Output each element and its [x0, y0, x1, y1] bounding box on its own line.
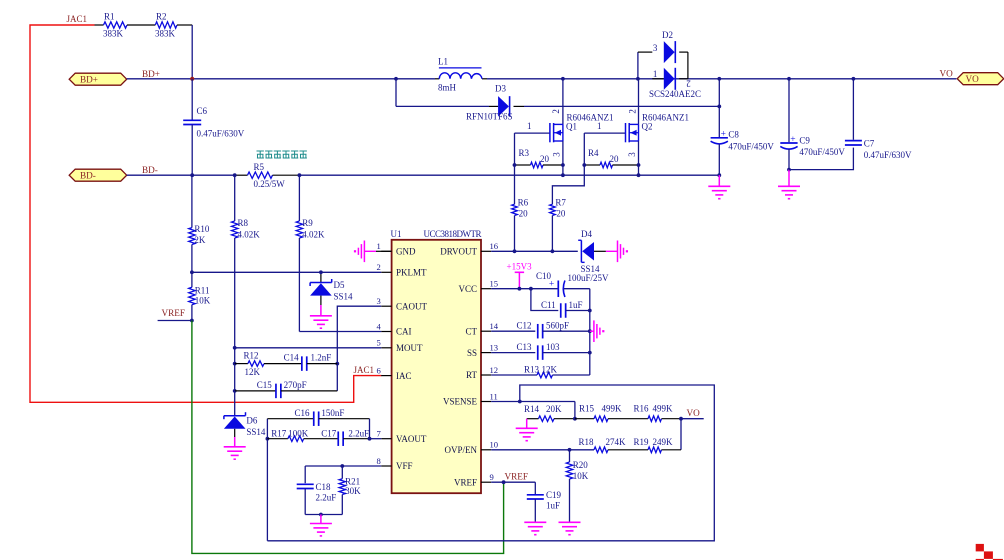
svg-text:8mH: 8mH [438, 83, 457, 93]
op-amp/controller U1 UCC3818DWTR [392, 240, 481, 493]
junction C15 left [233, 389, 237, 393]
svg-text:10: 10 [490, 440, 499, 450]
svg-text:2K: 2K [194, 235, 206, 245]
svg-text:D6: D6 [246, 416, 257, 426]
svg-text:2: 2 [551, 109, 561, 114]
svg-text:499K: 499K [653, 404, 674, 414]
capacitor C16 [267, 418, 313, 420]
wire CAOUT down to C15 [336, 364, 338, 391]
svg-text:D4: D4 [581, 229, 592, 239]
svg-text:CAOUT: CAOUT [396, 301, 428, 311]
svg-text:274K: 274K [606, 437, 627, 447]
svg-text:R20: R20 [573, 460, 589, 470]
capacitor C17 [337, 431, 339, 446]
svg-text:C17: C17 [321, 428, 337, 438]
svg-text:20: 20 [610, 154, 620, 164]
svg-text:R6: R6 [518, 198, 529, 208]
svg-text:1uF: 1uF [546, 501, 560, 511]
junction C8 top [717, 77, 721, 81]
svg-text:470uF/450V: 470uF/450V [728, 141, 774, 151]
junction C12 right [588, 329, 592, 333]
svg-text:VO: VO [940, 69, 954, 79]
svg-text:VAOUT: VAOUT [396, 434, 427, 444]
diode D3 [498, 96, 509, 117]
svg-text:Q2: Q2 [642, 121, 653, 131]
diode D4 (SS14) [582, 242, 594, 260]
ground below C8 (earth) [718, 175, 720, 186]
resistor R5 [235, 174, 248, 176]
resistor R1 [95, 24, 104, 26]
svg-text:16: 16 [490, 241, 499, 251]
svg-text:C18: C18 [316, 482, 332, 492]
svg-text:BD-: BD- [80, 171, 96, 181]
svg-text:U1: U1 [391, 229, 402, 239]
svg-text:BD+: BD+ [80, 75, 98, 85]
svg-text:2: 2 [628, 109, 638, 114]
svg-text:VO: VO [687, 408, 701, 418]
svg-text:R3: R3 [519, 148, 530, 158]
capacitor C14 [301, 356, 303, 371]
svg-text:R7: R7 [555, 198, 566, 208]
junction R20/OVP [568, 448, 572, 452]
svg-text:VSENSE: VSENSE [443, 397, 478, 407]
svg-text:12K: 12K [245, 367, 261, 377]
resistor R16 [648, 416, 662, 422]
svg-text:VFF: VFF [396, 461, 413, 471]
svg-text:R4: R4 [588, 148, 599, 158]
wire Q2 source to rail [638, 165, 640, 175]
U1 right pin stubs [481, 250, 491, 252]
wire CAI pin 4 to R9 [299, 331, 381, 333]
svg-text:R13: R13 [524, 364, 540, 374]
resistor R10 [191, 175, 193, 227]
svg-text:1: 1 [527, 121, 532, 131]
wire JAC1 net (red) from top-left to IAC pin 6 [30, 25, 381, 402]
junction +15V3/VCC [518, 287, 522, 291]
wire C11 branch [531, 289, 558, 311]
junction C9 top [787, 77, 791, 81]
junction VREF/green [502, 480, 506, 484]
svg-text:383K: 383K [155, 29, 176, 39]
svg-text:10K: 10K [195, 296, 211, 306]
wire CAOUT pin 3 [337, 306, 381, 363]
svg-text:4.02K: 4.02K [238, 229, 261, 239]
inductor L1 [439, 73, 482, 79]
svg-text:2: 2 [377, 262, 381, 272]
svg-text:2.2uF: 2.2uF [316, 493, 337, 503]
svg-text:0.25/5W: 0.25/5W [254, 179, 286, 189]
svg-text:20: 20 [540, 154, 550, 164]
capacitor C10 (electrolytic) [557, 281, 559, 298]
ground below R14 (earth) [526, 419, 528, 429]
junction node X / R17 [266, 437, 270, 441]
svg-text:1uF: 1uF [569, 300, 583, 310]
svg-text:UCC3818DWTR: UCC3818DWTR [424, 229, 482, 239]
svg-text:2.2uF: 2.2uF [348, 428, 369, 438]
svg-text:C6: C6 [197, 106, 208, 116]
svg-text:D5: D5 [334, 280, 345, 290]
junction R11 bottom / VREF stub [190, 319, 194, 323]
svg-text:499K: 499K [602, 404, 623, 414]
svg-text:30K: 30K [345, 486, 361, 496]
svg-text:12: 12 [490, 365, 499, 375]
diode D2 (SCS240AE2C) dual [637, 52, 639, 79]
capacitor C7 [852, 79, 854, 140]
resistor R18 [594, 447, 608, 453]
label (chinese) non-inductive cement resistor [257, 151, 264, 158]
resistor R8 [234, 175, 236, 221]
svg-text:103: 103 [546, 342, 560, 352]
wire R16/R19 right column [680, 419, 682, 450]
ground at C12 column (power bars) [590, 330, 594, 332]
resistor R15 [575, 418, 594, 420]
svg-text:10K: 10K [573, 471, 589, 481]
svg-text:4.02K: 4.02K [302, 229, 325, 239]
svg-text:11: 11 [490, 391, 498, 401]
svg-text:2: 2 [686, 79, 691, 89]
svg-text:C8: C8 [728, 129, 739, 139]
svg-text:C11: C11 [541, 300, 556, 310]
svg-text:R17: R17 [271, 428, 287, 438]
svg-text:R19: R19 [634, 437, 650, 447]
junction R10/R11/PKLMT [190, 270, 194, 274]
svg-text:6: 6 [377, 365, 382, 375]
svg-text:CT: CT [465, 326, 477, 336]
svg-text:VO: VO [966, 74, 980, 84]
junction D5 / PKLMT [319, 270, 323, 274]
capacitor C12 [537, 324, 539, 339]
diode D5 (SS14) [320, 272, 322, 282]
ground below R20 (earth) [559, 521, 581, 523]
junction R12 left [233, 362, 237, 366]
svg-text:D3: D3 [495, 84, 506, 94]
svg-text:JAC1: JAC1 [67, 14, 88, 24]
svg-text:R14: R14 [524, 404, 540, 414]
diode D6 (SS14) [234, 391, 236, 416]
resistor R20 [569, 450, 571, 462]
svg-text:8: 8 [377, 456, 381, 466]
svg-text:C10: C10 [536, 271, 552, 281]
ground below D6 (earth) [234, 437, 236, 447]
wire Q1 gate to R6 [514, 133, 516, 165]
no-ERC marker (red squares, bottom right) [976, 544, 984, 552]
wire R8 column down to R12/C15 [234, 348, 236, 391]
svg-text:RT: RT [466, 370, 477, 380]
wire VAOUT pin 7 [370, 438, 382, 440]
svg-text:OVP/EN: OVP/EN [444, 445, 477, 455]
wire C16 right down to pin7 [369, 419, 371, 439]
resistor R9 [298, 175, 300, 221]
junction R3 left / gate [513, 163, 517, 167]
svg-text:VREF: VREF [162, 308, 186, 318]
svg-text:R12: R12 [244, 351, 259, 361]
capacitor C15 [235, 390, 276, 392]
wire VREF net (green) [192, 321, 504, 554]
svg-text:3: 3 [653, 43, 658, 53]
svg-text:0.47uF/630V: 0.47uF/630V [864, 150, 912, 160]
resistor R21 [341, 466, 343, 479]
svg-text:470uF/450V: 470uF/450V [799, 147, 845, 157]
junction C10/C11 branch [529, 287, 533, 291]
svg-text:R6046ANZ1: R6046ANZ1 [567, 113, 614, 123]
svg-text:383K: 383K [103, 29, 124, 39]
junction C7 top [852, 77, 856, 81]
svg-text:3: 3 [552, 152, 562, 157]
junction C11 right [588, 309, 592, 313]
resistor R2 [155, 22, 177, 28]
junction R16/VO stub [679, 417, 683, 421]
wire VCC right column [589, 289, 591, 375]
svg-text:R1: R1 [104, 12, 115, 22]
svg-text:C15: C15 [257, 380, 273, 390]
junction Q1 drain [561, 77, 565, 81]
svg-text:7: 7 [377, 429, 382, 439]
wire Q2 gate riser [583, 133, 585, 165]
resistor R19 [648, 447, 662, 453]
ground below C19 (earth) [524, 521, 546, 523]
ground below C9 (earth) [788, 170, 790, 187]
svg-text:270pF: 270pF [284, 380, 307, 390]
wire MOUT pin 5 to R8 column [235, 347, 382, 349]
capacitor C11 [560, 303, 562, 318]
resistor R6 [512, 204, 518, 215]
svg-text:560pF: 560pF [546, 321, 569, 331]
svg-text:R11: R11 [195, 286, 210, 296]
port VO [957, 73, 1004, 85]
svg-text:R16: R16 [634, 404, 650, 414]
svg-text:3: 3 [627, 152, 637, 157]
svg-text:100K: 100K [288, 428, 309, 438]
junction VSENSE riser [518, 400, 522, 404]
svg-text:C13: C13 [517, 342, 533, 352]
svg-text:R8: R8 [238, 218, 249, 228]
svg-text:150nF: 150nF [321, 408, 344, 418]
svg-text:14: 14 [490, 321, 499, 331]
resistor R7 [550, 204, 556, 215]
junction Q2 source on rail [637, 173, 641, 177]
resistor R3 [515, 164, 531, 166]
svg-text:VREF: VREF [454, 477, 477, 487]
junction R6/DRVOUT [513, 249, 517, 253]
svg-text:C16: C16 [295, 408, 311, 418]
junction BD-/R9/R5 [298, 173, 302, 177]
wire VREF stub (left) [158, 320, 192, 322]
svg-text:VCC: VCC [458, 284, 477, 294]
svg-text:+: + [790, 135, 795, 145]
svg-text:3: 3 [377, 296, 381, 306]
ground at D4 (power bars) [606, 250, 618, 252]
capacitor C8 (electrolytic) [718, 79, 720, 137]
port BD+ [69, 73, 127, 85]
resistor R11 [191, 272, 193, 287]
capacitor C6 [191, 79, 193, 121]
svg-text:RFN10TF6S: RFN10TF6S [466, 112, 513, 122]
svg-text:PKLMT: PKLMT [396, 268, 427, 278]
wire VCC pin 15 row [491, 288, 557, 290]
svg-text:D2: D2 [662, 30, 673, 40]
svg-text:R6046ANZ1: R6046ANZ1 [642, 113, 689, 123]
junction R4 right / source [637, 163, 641, 167]
junction BD-/C6 [190, 173, 194, 177]
junction MOUT/R8 [233, 346, 237, 350]
junction C9 bottom [787, 168, 791, 172]
svg-text:5: 5 [377, 338, 381, 348]
capacitor C9 (electrolytic) [788, 79, 790, 142]
svg-text:20: 20 [519, 209, 529, 219]
svg-text:C7: C7 [864, 139, 875, 149]
wire BD- rail [127, 174, 235, 176]
wire VSENSE to divider [574, 402, 576, 419]
svg-text:SS14: SS14 [246, 427, 266, 437]
svg-text:CAI: CAI [396, 327, 412, 337]
capacitor C13 [537, 345, 539, 360]
svg-text:R5: R5 [254, 162, 265, 172]
svg-text:C9: C9 [799, 136, 810, 146]
resistor R17 [267, 438, 288, 440]
svg-text:L1: L1 [438, 57, 448, 67]
wire PKLMT pin 2 to divider [192, 271, 381, 273]
svg-text:MOUT: MOUT [396, 343, 423, 353]
junction C8 bottom on rail [717, 173, 721, 177]
diode D3 branch wire [395, 79, 397, 107]
svg-text:SS14: SS14 [334, 292, 354, 302]
transistor Q2 (R6046ANZ1) [638, 79, 640, 125]
svg-text:+: + [549, 280, 554, 290]
junction VFF ground node [319, 513, 323, 517]
junction R14/R15/VSENSE [573, 417, 577, 421]
svg-text:+15V3: +15V3 [507, 262, 533, 272]
svg-text:Q1: Q1 [566, 121, 577, 131]
svg-text:DRVOUT: DRVOUT [440, 247, 477, 257]
svg-text:R15: R15 [579, 404, 595, 414]
capacitor C18 [304, 466, 306, 483]
svg-text:R21: R21 [345, 476, 360, 486]
svg-text:20K: 20K [546, 404, 562, 414]
power +15V3 [518, 272, 520, 288]
wire BD+ rail (top) [127, 78, 435, 80]
wire SS pin 13 row [491, 352, 535, 354]
svg-text:249K: 249K [653, 437, 674, 447]
svg-text:SS: SS [467, 348, 477, 358]
svg-text:C12: C12 [517, 321, 532, 331]
ground below C18/R21 (earth) [320, 515, 322, 524]
svg-text:4: 4 [377, 321, 382, 331]
svg-text:13: 13 [490, 342, 499, 352]
svg-text:R9: R9 [302, 218, 313, 228]
wire DRVOUT pin 16 row [491, 250, 578, 252]
junction D2/Q2 drain [636, 77, 640, 81]
junction R4 left / gate [582, 163, 586, 167]
ground at pin 1 GND (power bars) [376, 250, 392, 252]
svg-text:12K: 12K [542, 364, 558, 374]
resistor R12 [235, 363, 248, 365]
ground below D5 (earth) [320, 305, 322, 316]
wire C9 bottom to C7 bottom [789, 148, 853, 170]
wire VO stub [681, 418, 704, 420]
svg-text:1: 1 [653, 69, 658, 79]
svg-text:9: 9 [490, 472, 494, 482]
resistor R14 [527, 418, 539, 420]
wire VAOUT comp network - node X riser [266, 419, 268, 541]
wire C18/R21 bottom [305, 514, 342, 516]
svg-text:20: 20 [556, 209, 566, 219]
transistor Q1 (R6046ANZ1) [562, 79, 564, 125]
svg-text:0.47uF/630V: 0.47uF/630V [197, 129, 245, 139]
wire OVP/EN pin 10 row [491, 449, 594, 451]
junction VFF/R21 [340, 464, 344, 468]
junction BD-/R8/R5 [233, 173, 237, 177]
U1 left pin stubs [381, 250, 391, 252]
svg-text:SCS240AE2C: SCS240AE2C [649, 89, 701, 99]
svg-text:IAC: IAC [396, 371, 412, 381]
svg-text:BD-: BD- [142, 165, 158, 175]
junction R7/DRVOUT [551, 249, 555, 253]
wire from R2 down to BD+ node [191, 25, 193, 79]
svg-text:1.2nF: 1.2nF [311, 353, 332, 363]
port BD- [69, 175, 127, 181]
svg-text:C19: C19 [546, 490, 562, 500]
svg-text:15: 15 [490, 279, 499, 289]
wire VSENSE pin 11 + feedback loop [491, 401, 575, 403]
resistor R13 (RT) [491, 374, 537, 376]
svg-text:100uF/25V: 100uF/25V [568, 273, 610, 283]
junction C13 right [588, 351, 592, 355]
svg-text:R18: R18 [579, 437, 595, 447]
junction Q1 source on rail [561, 173, 565, 177]
svg-text:VREF: VREF [505, 472, 529, 482]
svg-text:R10: R10 [194, 224, 210, 234]
svg-text:1: 1 [377, 241, 381, 251]
junction C17/C16 at pin 7 [368, 437, 372, 441]
junction D3 output at C8 stem [717, 105, 721, 109]
wire R4 node jog down-left to R7 [552, 165, 584, 204]
capacitor C19 [534, 482, 536, 495]
svg-text:R2: R2 [156, 12, 167, 22]
junction D3 branch [394, 77, 398, 81]
wire Q1 source to rail [562, 165, 564, 175]
junction R3 right / source [561, 163, 565, 167]
wire VREF pin 9 [491, 481, 535, 483]
junction BD+/C6 (red) [190, 77, 194, 81]
wire CT pin 14 row [491, 330, 535, 332]
junction C14 right [335, 362, 339, 366]
svg-text:JAC1: JAC1 [354, 365, 375, 375]
resistor R4 [584, 164, 600, 166]
svg-text:C14: C14 [284, 353, 300, 363]
svg-text:GND: GND [396, 247, 416, 257]
svg-text:1: 1 [597, 121, 602, 131]
svg-text:+: + [721, 130, 726, 140]
svg-text:BD+: BD+ [142, 69, 160, 79]
wire VFF pin 8 [305, 465, 381, 467]
